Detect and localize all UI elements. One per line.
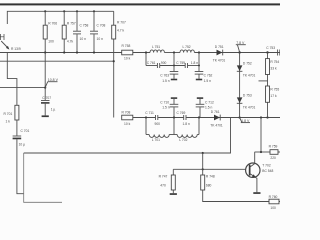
inductor L702 bbox=[174, 118, 199, 142]
ground bar under C763 bbox=[171, 79, 177, 81]
svg-text:C 759: C 759 bbox=[176, 61, 185, 65]
svg-text:L 702: L 702 bbox=[179, 138, 187, 142]
capacitor C758 bbox=[73, 11, 88, 52]
wire diode column bbox=[239, 53, 241, 118]
svg-text:C 763: C 763 bbox=[160, 74, 169, 78]
wire mid column upper bbox=[173, 53, 175, 66]
transistor T702 bbox=[246, 163, 274, 178]
node 1.8 V callout bbox=[240, 118, 250, 123]
diode D751 bbox=[213, 45, 226, 63]
svg-text:C 758: C 758 bbox=[80, 24, 89, 28]
svg-text:R 747: R 747 bbox=[159, 175, 168, 179]
node dot main line right bbox=[266, 51, 268, 53]
svg-text:D 761: D 761 bbox=[211, 110, 220, 114]
inductor L751 bbox=[150, 45, 164, 53]
resistor R747 bbox=[159, 169, 176, 193]
svg-text:1.8 n: 1.8 n bbox=[191, 61, 198, 65]
node 10.8 V callout bbox=[45, 78, 58, 88]
svg-text:TK 4701: TK 4701 bbox=[243, 106, 256, 110]
svg-text:C 761: C 761 bbox=[147, 61, 156, 65]
capacitor C710 shunt bbox=[160, 97, 178, 117]
capacitor C711 bbox=[145, 111, 160, 126]
diode D753 bbox=[237, 93, 256, 109]
capacitor C712 shunt bbox=[196, 97, 214, 117]
svg-text:C 710: C 710 bbox=[160, 100, 169, 104]
node 7.8 V callout bbox=[236, 41, 246, 54]
capacitor C753 at right edge bbox=[266, 46, 280, 55]
svg-text:100: 100 bbox=[48, 39, 54, 43]
ground bar under emitter bbox=[253, 192, 260, 194]
diode D752 bbox=[237, 61, 256, 77]
capacitor C708 bbox=[90, 11, 105, 52]
svg-text:T 702: T 702 bbox=[262, 164, 271, 168]
wire base line bbox=[173, 168, 245, 170]
wire emitter down bbox=[255, 177, 257, 192]
svg-text:1.5 n: 1.5 n bbox=[162, 106, 169, 110]
module box outline left bbox=[24, 153, 62, 202]
svg-text:1.5 n: 1.5 n bbox=[204, 79, 211, 83]
node dot mid column top bbox=[173, 51, 175, 53]
resistor R759 bbox=[269, 144, 278, 160]
resistor R701 bbox=[4, 105, 19, 135]
resistor R748 bbox=[201, 169, 215, 190]
node dot right column top bbox=[198, 51, 200, 53]
svg-text:100: 100 bbox=[270, 206, 276, 210]
wire R706 column down to C707 bbox=[44, 53, 46, 101]
svg-text:10 µ: 10 µ bbox=[19, 142, 26, 146]
ground bar under C762 bbox=[196, 79, 202, 81]
svg-text:R 708: R 708 bbox=[122, 111, 131, 115]
capacitor C707 electrolytic bbox=[41, 96, 55, 116]
svg-text:1.8 V: 1.8 V bbox=[241, 119, 250, 123]
svg-text:L 752: L 752 bbox=[183, 45, 191, 49]
svg-text:C 711: C 711 bbox=[145, 111, 154, 115]
svg-text:R 13/9: R 13/9 bbox=[11, 47, 21, 51]
svg-text:TK 4701: TK 4701 bbox=[210, 123, 223, 127]
svg-text:1 k: 1 k bbox=[6, 120, 11, 124]
ground bar under C707 bbox=[42, 115, 49, 117]
svg-text:BC 548: BC 548 bbox=[262, 169, 273, 173]
svg-text:R 707: R 707 bbox=[117, 21, 126, 25]
wire divider tap stub bbox=[259, 80, 268, 82]
capacitor C759 bbox=[176, 61, 198, 68]
capacitor C761 bbox=[147, 61, 167, 68]
capacitor row upper: wire segments bbox=[146, 65, 199, 67]
capacitor C762 shunt bbox=[195, 65, 213, 84]
node dots on rail A bbox=[44, 10, 95, 12]
svg-text:R 748: R 748 bbox=[206, 175, 215, 179]
svg-text:R 701: R 701 bbox=[4, 112, 13, 116]
wire main line to diode D751 bbox=[194, 52, 280, 54]
svg-text:R 755: R 755 bbox=[270, 87, 279, 91]
wire collector up bbox=[254, 152, 256, 164]
resistor R707 bbox=[112, 11, 126, 39]
svg-text:R 754: R 754 bbox=[270, 60, 279, 64]
resistor R755 bbox=[266, 86, 280, 102]
svg-text:220: 220 bbox=[270, 156, 276, 160]
inductor L701 bbox=[146, 118, 174, 142]
capacitor C769 bbox=[177, 111, 190, 126]
svg-text:1.8 n: 1.8 n bbox=[183, 122, 190, 126]
inductor L752 bbox=[180, 45, 194, 53]
svg-text:D 752: D 752 bbox=[243, 61, 252, 65]
wire main line B left section bbox=[0, 52, 150, 54]
svg-text:H: H bbox=[0, 33, 5, 42]
svg-text:R 757: R 757 bbox=[67, 21, 76, 25]
svg-text:R 759: R 759 bbox=[269, 144, 278, 148]
svg-text:C 701: C 701 bbox=[21, 129, 30, 133]
wire line C bbox=[0, 60, 115, 62]
svg-text:C 753: C 753 bbox=[266, 46, 275, 50]
svg-text:C 762: C 762 bbox=[204, 74, 213, 78]
resistor R758 bbox=[122, 44, 133, 61]
wire divider column bbox=[267, 53, 269, 118]
capacitor C701 electrolytic bbox=[13, 129, 30, 147]
node dot base line tap on long line bbox=[202, 152, 204, 154]
wire 10.8V node line bbox=[0, 87, 46, 89]
svg-text:10 k: 10 k bbox=[124, 57, 131, 61]
resistor R706 bbox=[43, 11, 57, 52]
potentiometer arrow R 13/9 bbox=[1, 41, 21, 51]
svg-text:33 k: 33 k bbox=[270, 67, 277, 71]
svg-text:D 751: D 751 bbox=[215, 45, 224, 49]
svg-text:C 769: C 769 bbox=[177, 111, 186, 115]
svg-text:4.7 k: 4.7 k bbox=[117, 29, 124, 33]
wire top supply rail A bbox=[7, 11, 113, 24]
svg-text:C 708: C 708 bbox=[97, 24, 106, 28]
wire C701 down and right bbox=[17, 139, 24, 193]
svg-text:L 751: L 751 bbox=[152, 45, 160, 49]
svg-text:C 712: C 712 bbox=[205, 100, 214, 104]
wire R707 down to R708 node bbox=[113, 39, 115, 118]
svg-text:470: 470 bbox=[160, 184, 166, 188]
svg-text:17 k: 17 k bbox=[270, 94, 277, 98]
wire R748 column from long line bbox=[202, 153, 204, 169]
node dots lower line bbox=[145, 116, 269, 118]
svg-text:10 n: 10 n bbox=[80, 37, 87, 41]
svg-text:1 µ: 1 µ bbox=[51, 108, 56, 112]
svg-text:TK 4701: TK 4701 bbox=[243, 74, 256, 78]
diode D761 bbox=[210, 110, 223, 127]
ground bar under R747 bbox=[170, 193, 177, 195]
wire left drop to R701 bbox=[7, 53, 17, 106]
svg-text:C 707: C 707 bbox=[42, 96, 51, 100]
svg-text:L 701: L 701 bbox=[152, 138, 160, 142]
resistor R760 bbox=[269, 195, 280, 210]
svg-text:10 k: 10 k bbox=[124, 122, 131, 126]
wire down from lower line to collector line bbox=[260, 118, 262, 153]
wire right column upper bbox=[198, 53, 200, 66]
svg-text:900: 900 bbox=[155, 122, 161, 126]
svg-text:R 758: R 758 bbox=[122, 44, 131, 48]
resistor R708 bbox=[122, 111, 133, 127]
svg-text:10 n: 10 n bbox=[97, 37, 104, 41]
node dots on main line bbox=[44, 51, 95, 53]
capacitor C763 shunt bbox=[160, 65, 178, 84]
svg-text:R 706: R 706 bbox=[48, 21, 57, 25]
resistor R757 bbox=[62, 11, 76, 52]
svg-text:680: 680 bbox=[206, 184, 212, 188]
top page border line bbox=[0, 3, 280, 5]
wire R748 down to bottom line bbox=[203, 190, 269, 202]
svg-text:4.7k: 4.7k bbox=[67, 39, 74, 43]
svg-text:TK 4701: TK 4701 bbox=[213, 58, 226, 62]
wire long base line bbox=[24, 118, 231, 154]
svg-text:900: 900 bbox=[161, 61, 167, 65]
svg-text:R 760: R 760 bbox=[269, 195, 278, 199]
wire upper filter input column bbox=[145, 51, 147, 65]
wire collector line with node dot bbox=[255, 151, 281, 153]
wire between coils bbox=[164, 52, 180, 54]
svg-text:1.5 n: 1.5 n bbox=[162, 79, 169, 83]
resistor R754 bbox=[266, 59, 280, 75]
svg-text:7.8 V: 7.8 V bbox=[236, 41, 245, 45]
svg-text:D 753: D 753 bbox=[243, 93, 252, 97]
wire lower filter line bbox=[133, 117, 280, 119]
svg-text:10.8 V: 10.8 V bbox=[48, 78, 59, 82]
